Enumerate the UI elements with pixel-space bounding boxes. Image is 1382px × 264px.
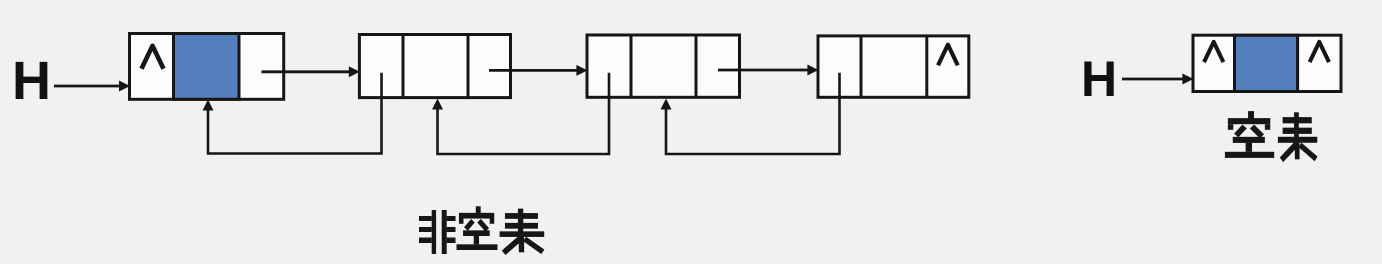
node N1 data cell (blue) — [174, 34, 240, 100]
wire: arrow H to empty node — [1122, 78, 1184, 81]
node N3 box — [587, 35, 740, 97]
wire: arrow H to node N1 — [54, 85, 121, 88]
wire: back pointer N2 to N1 — [208, 73, 382, 154]
node N1 prior null caret — [142, 46, 164, 69]
node N2 box — [359, 35, 510, 98]
node N1 box — [130, 34, 284, 100]
node E1 prior null caret — [1204, 42, 1223, 62]
wire: back pointer N3 to N2 — [438, 73, 610, 154]
wire: back pointer N4 to N3 — [666, 73, 840, 154]
node E1 data cell (blue) — [1235, 35, 1298, 91]
label: empty list (空表) — [1225, 111, 1274, 158]
wire: forward arrow N3 to N4 — [718, 69, 809, 72]
node E1 box (empty list) — [1193, 35, 1341, 91]
wire: forward arrow N2 to N3 — [489, 69, 578, 72]
wire: forward arrow N1 to N2 — [262, 70, 351, 73]
label: non-empty list (非空表) — [419, 210, 456, 254]
node E1 next null caret — [1310, 42, 1329, 62]
svg-text:H: H — [1081, 51, 1117, 107]
svg-text:H: H — [12, 51, 51, 111]
node N4 box — [818, 36, 969, 97]
node N4 next null caret — [938, 45, 958, 66]
